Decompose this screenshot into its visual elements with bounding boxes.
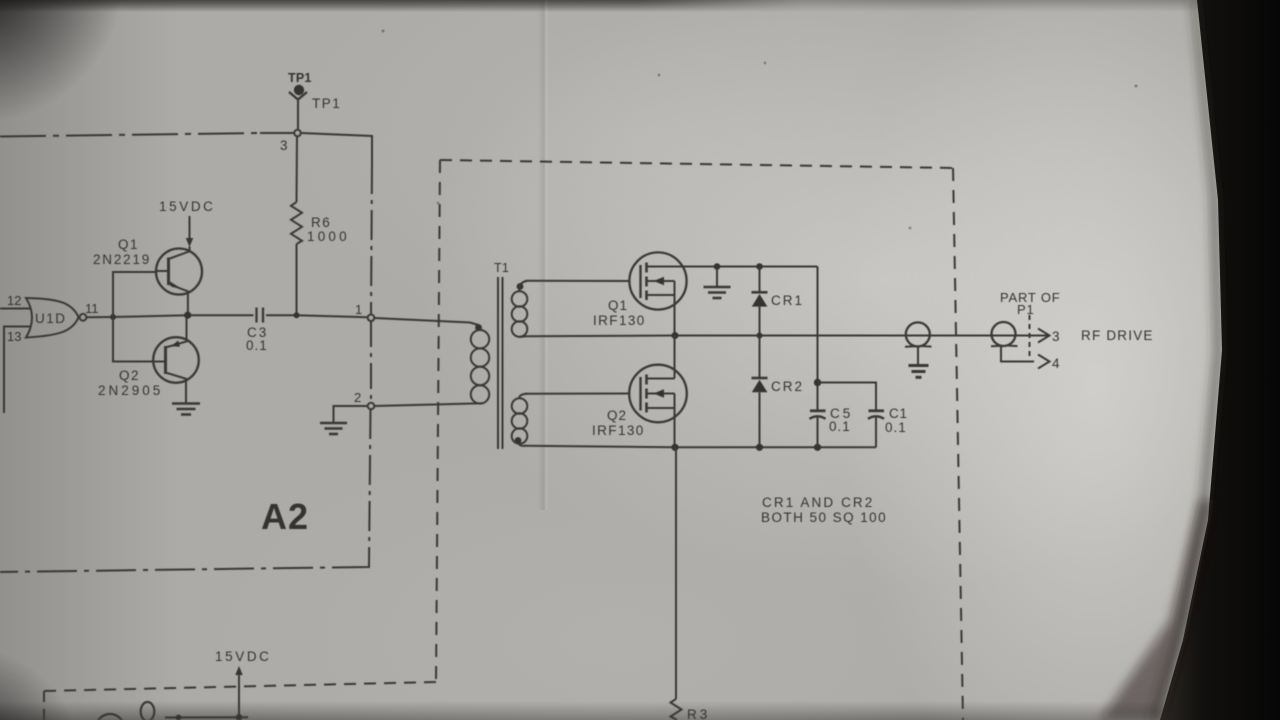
fold line in paper <box>538 0 549 510</box>
RF module boundary right edge <box>953 168 963 720</box>
P1 boundary (short dashed) <box>1029 315 1031 358</box>
wire to pin 4 <box>1001 347 1034 362</box>
capacitor C1 <box>868 406 908 447</box>
capacitor C3 <box>246 308 268 354</box>
node 3 (open circle) <box>294 130 301 137</box>
arrow pin 4 <box>1038 355 1050 369</box>
node junction (U1D out) <box>110 314 116 320</box>
diode CR2 <box>752 336 805 448</box>
transformer T1 primary winding <box>374 324 489 406</box>
MOSFET Q1 (IRF130) <box>593 252 687 335</box>
node junction (Q1 source / Q2 drain) <box>672 332 679 339</box>
RF module boundary bottom-left run <box>44 682 436 691</box>
node junction (R6 bottom) <box>294 312 300 318</box>
wire rail corner down to C5 <box>817 267 819 411</box>
wire secondary1 top to Q1 gate <box>525 280 630 282</box>
ground (top rail) <box>704 263 731 298</box>
node junction (Q2 source) <box>671 444 678 451</box>
node junction (C5/C1 top branch) <box>814 379 821 386</box>
lamp (partial, bottom left) <box>141 702 155 720</box>
wire top rail (Q1 drain) <box>647 266 818 268</box>
A2 module boundary (dash-dot) top edge <box>0 133 260 137</box>
ground (node 2) <box>320 423 347 434</box>
wire U1D output to bus <box>87 316 114 318</box>
gate U1D <box>7 293 99 344</box>
wire node3 to A2 corner <box>301 133 372 164</box>
wire R6 to bus <box>296 244 298 315</box>
transistor circle (partial, bottom left) <box>96 714 124 720</box>
A2 module boundary right edge lower (dash-dot) <box>370 321 372 403</box>
A2 module boundary right edge upper (dash-dot) <box>371 164 372 315</box>
node 2 (open circle) <box>368 403 375 410</box>
wire bottom rail <box>675 446 876 448</box>
diode CR1 <box>752 263 805 335</box>
dark area right of paper edge <box>1160 0 1280 720</box>
MOSFET Q2 (IRF130) <box>592 336 687 448</box>
wire secondary2 top to Q2 gate <box>525 393 630 395</box>
RF module boundary (dashed) top edge <box>440 160 953 168</box>
node junction (emitters) <box>184 312 191 319</box>
A2 module boundary bottom edge (dash-dot) <box>0 564 369 572</box>
feedthrough capacitor (on output line) <box>905 322 932 377</box>
ground (Q2 collector) <box>172 404 200 415</box>
resistor R3 (partial at bottom) <box>671 699 682 720</box>
wire Q2 base <box>113 317 154 362</box>
wire Q1 base <box>113 272 157 317</box>
wire secondary2 bottom to source rail <box>525 446 675 448</box>
transformer T1 secondary 2 (bottom) <box>512 394 675 448</box>
wire pin 12 <box>0 308 31 310</box>
node junction (CR2 bottom) <box>756 444 763 451</box>
main output line <box>675 335 1049 337</box>
wire node2 left to ground <box>334 406 368 422</box>
transistor Q1 (2N2219) <box>93 237 202 315</box>
wire C3 to node 1 <box>266 315 368 317</box>
wire branch to C1 <box>818 383 877 411</box>
node junction (C5 bottom) <box>814 444 821 451</box>
test point TP1 <box>288 71 341 130</box>
transformer T1 secondary 1 (top) <box>512 281 675 337</box>
transistor Q2 (2N2905) <box>98 315 199 402</box>
node 1 (open circle) <box>368 315 375 322</box>
shading just left of paper edge <box>1150 0 1222 720</box>
power 15VDC (bottom) with arrow up <box>215 649 272 720</box>
node junction (CR1-CR2) <box>757 333 763 339</box>
power 15VDC (top) with arrow down <box>159 199 216 247</box>
wire (bottom left) <box>165 716 248 718</box>
wire secondary1 bottom to main line <box>526 335 675 338</box>
wire node1 to transformer primary <box>374 318 478 325</box>
connector P1 bead <box>991 322 1034 362</box>
wire main bus to C3 <box>113 315 254 317</box>
capacitor C5 <box>810 406 854 447</box>
RF module boundary left edge <box>436 160 440 682</box>
shadow under bottom-right paper corner <box>1100 500 1215 720</box>
wire node3 down to R6 <box>296 136 299 202</box>
arrow pin 3 <box>1038 329 1050 343</box>
transformer T1 core <box>497 277 499 449</box>
wire down to R3 <box>675 447 677 699</box>
wire pin 13 with vertical <box>4 327 30 414</box>
resistor R6 <box>291 202 302 244</box>
dust specks <box>382 30 1138 230</box>
